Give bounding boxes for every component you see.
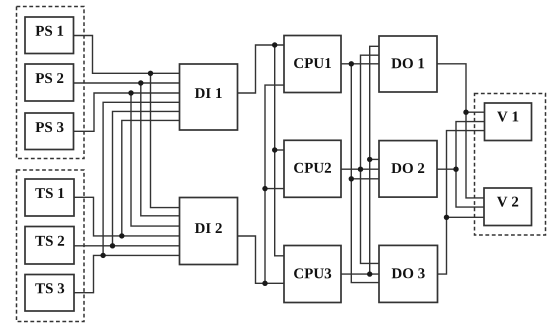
block CPU2 [284, 140, 341, 197]
junction DI2 trunk bottom [262, 281, 267, 286]
label DI 2 [195, 223, 222, 233]
wire CPU3 trunk to DO2 [370, 158, 379, 160]
block TS 2 [25, 227, 74, 265]
wire CPU3 trunk to DO1 [370, 46, 379, 274]
wire DO3 branch to V2 [447, 216, 485, 218]
dashed group box: temperature sensors TS [17, 170, 85, 322]
wire CPU1 trunk to DO3 [351, 64, 379, 283]
wire CPU2 trunk to DO1 and DO3 [361, 55, 380, 263]
junction CPU1 trunk at DO2 [349, 176, 354, 181]
junction TS1 branch [119, 233, 124, 238]
label PS 3 [36, 122, 64, 132]
wire TS3 to DI2 input6 [74, 255, 180, 292]
block DI 1 [180, 64, 238, 130]
junction TS2 branch [110, 243, 115, 248]
wire DI1 trunk to CPU3 [275, 45, 284, 256]
label DO 3 [392, 268, 425, 278]
label CPU2 [294, 163, 331, 173]
wire CPU1 trunk to DO2 [351, 178, 379, 180]
junction TS3 branch [100, 253, 105, 258]
label DO 2 [391, 163, 424, 173]
wire DI2 trunk to CPU1 [265, 85, 284, 283]
block DO 3 [379, 245, 438, 302]
junction DI1 trunk top [272, 42, 277, 47]
junction CPU3 output [367, 271, 372, 276]
label TS 3 [35, 283, 64, 293]
wire PS3 branch to DI2 input3 [131, 93, 180, 226]
junction CPU3 trunk at DO2 [367, 157, 372, 162]
label TS 1 [35, 188, 64, 198]
wire PS2 branch to DI2 input2 [141, 83, 180, 216]
block TS 1 [25, 179, 74, 216]
wire CPU3 output to DO3 [341, 273, 379, 275]
wire DI1 output to CPU1 [238, 45, 285, 93]
label V 2 [497, 197, 518, 207]
label PS 1 [36, 26, 64, 36]
dashed group box: pressure sensors PS [17, 7, 85, 159]
label DO 1 [391, 58, 424, 68]
wire DI2 output to CPU3 [238, 236, 285, 283]
wire DI2 trunk to CPU2 [265, 188, 284, 190]
junction DI1 trunk at CPU2 [272, 147, 277, 152]
wire PS2 to DI1 input2 [74, 82, 180, 84]
wire PS1 to DI1 input1 [74, 36, 180, 74]
wire TS3 branch to DI1 input4 [103, 102, 179, 255]
junction DO2 output [453, 167, 458, 172]
block V 1 [485, 103, 532, 141]
block CPU3 [284, 246, 341, 303]
dashed group box: voting outputs V [475, 94, 546, 236]
block PS 2 [25, 64, 74, 101]
wire PS1 branch to DI2 input1 [151, 73, 180, 207]
label CPU3 [294, 268, 331, 278]
wire DO2 output stub [437, 168, 456, 170]
block V 2 [484, 188, 532, 226]
wire DO3 output to V1 [438, 131, 485, 275]
junction CPU1 output [349, 61, 354, 66]
wire DI1 trunk to CPU2 [275, 149, 284, 151]
junction DO3 line at V2 [444, 215, 449, 220]
block DO 1 [379, 36, 437, 92]
label V 1 [497, 112, 518, 122]
block DO 2 [379, 141, 437, 198]
block TS 3 [25, 275, 74, 312]
block DI 2 [180, 198, 238, 265]
wire TS2 to DI2 input5 [74, 245, 180, 247]
block PS 3 [25, 113, 74, 150]
wire TS2 branch to DI1 input5 [113, 111, 180, 245]
wire CPU2 output to DO2 [341, 168, 379, 170]
block PS 1 [25, 17, 74, 54]
wire TS1 branch to DI1 input6 [122, 120, 180, 235]
wire DO2 branch to V1 and V2 [456, 122, 485, 208]
junction PS2 branch [138, 80, 143, 85]
wire DO1 output to V2 [437, 64, 484, 198]
junction DI2 trunk at CPU2 [262, 186, 267, 191]
wire DO1 branch to V1 [466, 111, 485, 113]
junction CPU2 output [358, 167, 363, 172]
junction PS1 branch [148, 71, 153, 76]
wire TS1 to DI2 input4 [74, 197, 180, 236]
label DI 1 [195, 88, 222, 98]
junction PS3 branch [128, 90, 133, 95]
label CPU1 [294, 58, 331, 68]
label TS 2 [35, 236, 64, 246]
label PS 2 [36, 73, 64, 83]
junction DO1 line at V1 [463, 110, 468, 115]
block CPU1 [284, 36, 341, 93]
wire PS3 to DI1 input3 [74, 93, 180, 131]
wire CPU1 output to DO1 [341, 63, 379, 65]
